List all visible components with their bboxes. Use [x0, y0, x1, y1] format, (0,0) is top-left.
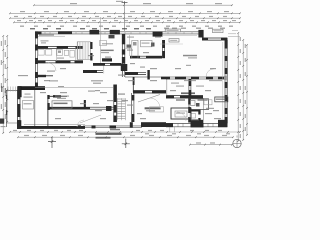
dim text	[60, 26, 64, 27]
small text b1	[40, 92, 46, 93]
dim text	[179, 20, 183, 21]
dim text	[27, 130, 31, 131]
dim text	[176, 113, 185, 114]
dim text	[5, 40, 6, 45]
dim text	[130, 11, 135, 12]
corridor wall inner	[36, 62, 84, 64]
dim text	[40, 130, 44, 131]
window detail marks top	[45, 32, 192, 34]
big room label 2	[57, 98, 66, 99]
corridor junction dark block	[102, 58, 112, 61]
stair outline	[77, 42, 90, 60]
top wall segment	[35, 31, 42, 34]
bedroom wall segment	[189, 79, 192, 86]
dim text	[164, 28, 169, 29]
dim text	[205, 26, 209, 27]
corridor wall segment	[75, 60, 84, 63]
right dim line 3	[246, 45, 248, 135]
dim text	[245, 114, 246, 118]
dim text	[169, 16, 173, 17]
dim text	[148, 130, 152, 131]
dim text	[70, 20, 74, 21]
annex west wall segment	[17, 120, 20, 129]
top wall pier 2	[110, 30, 120, 35]
dim text	[145, 20, 149, 21]
small text	[140, 67, 145, 68]
small text	[93, 103, 99, 104]
left wing lower wall outer	[48, 106, 114, 108]
interior dim text	[60, 68, 66, 69]
hall stair rails	[117, 98, 125, 120]
bathroom box	[189, 99, 209, 110]
wall C segment	[180, 95, 203, 98]
door arc left wing	[48, 63, 56, 71]
bottom wall left corner	[17, 120, 21, 129]
kitchen east wall east face	[164, 40, 166, 58]
divider segment	[206, 77, 213, 80]
label box right wing	[215, 97, 228, 102]
bedroom wall east	[190, 79, 192, 96]
kitchen wall segment	[130, 56, 140, 59]
top wall segment	[58, 31, 72, 34]
dim text	[167, 20, 171, 21]
dim line overall top	[34, 4, 232, 6]
corridor label	[47, 71, 55, 72]
table text	[54, 103, 68, 105]
left inner wall segment	[47, 103, 49, 110]
section marker cross left	[48, 137, 56, 148]
bathroom west wall segment 3	[188, 117, 191, 123]
door arc divider living	[206, 69, 214, 77]
dim text	[103, 20, 107, 21]
right wall segment	[225, 56, 228, 61]
dim text	[5, 64, 6, 69]
dim text	[114, 20, 118, 21]
dim text	[155, 16, 159, 17]
upper room divider inner	[166, 78, 227, 80]
dim text	[216, 99, 226, 100]
kitchen counter 2	[141, 40, 153, 46]
dim text	[195, 16, 199, 17]
kitchen sink	[133, 42, 137, 46]
axis line	[124, 2, 126, 32]
dim text	[240, 124, 241, 128]
dim text	[42, 135, 47, 136]
interior dim text	[175, 68, 181, 69]
dim text	[149, 135, 154, 136]
central wall segment	[122, 34, 125, 44]
right wing wall C inner	[166, 97, 203, 99]
left wall segment	[35, 72, 38, 78]
room table box	[100, 41, 107, 46]
dim text	[208, 28, 213, 29]
beam line living	[160, 43, 183, 45]
dim text	[136, 130, 140, 131]
dim text	[5, 78, 6, 83]
dim text	[190, 20, 194, 21]
dim text	[240, 134, 241, 138]
interior dim text	[95, 110, 102, 111]
dim text	[128, 16, 132, 17]
right wall inner face	[226, 40, 228, 123]
kitchen east wall segment	[162, 40, 165, 48]
dim text	[223, 16, 227, 17]
small text	[130, 63, 135, 64]
corridor partition	[103, 66, 105, 74]
dim line bottom 3 partial	[190, 144, 232, 146]
right wing vertical thin	[166, 77, 168, 96]
axis bubble bottom right	[233, 139, 241, 147]
right dim line 2	[242, 40, 244, 140]
dim text	[73, 26, 77, 27]
kitchen wall segment	[146, 56, 162, 59]
mid wall B outer	[125, 71, 146, 73]
interior dim text	[55, 118, 61, 119]
dim text	[212, 20, 216, 21]
bedroom wall west	[188, 79, 190, 96]
dim text	[34, 26, 38, 27]
annex bottom line	[6, 122, 20, 124]
dim text	[150, 11, 155, 12]
room label	[41, 40, 49, 41]
dim text	[5, 91, 6, 96]
mullion	[92, 125, 96, 128]
interior dim text	[205, 90, 211, 91]
dim text	[81, 20, 85, 21]
dim text	[196, 28, 201, 29]
dim text	[68, 16, 72, 17]
porch steps	[8, 87, 16, 92]
bedroom label B	[196, 86, 204, 87]
dim text	[140, 26, 144, 27]
dim text	[192, 26, 196, 27]
interior dim text	[44, 80, 50, 81]
dim text	[95, 16, 99, 17]
right dim line 1	[237, 33, 239, 141]
left dim line 2	[6, 36, 8, 122]
sill line living	[222, 42, 224, 120]
stair text	[127, 105, 133, 106]
terrace mullion	[78, 125, 81, 128]
annex table	[23, 101, 34, 110]
right wing wall stub	[132, 77, 134, 92]
annex table text	[24, 103, 32, 104]
dim text	[54, 130, 58, 131]
dim text	[188, 11, 193, 12]
top-right wall segment	[221, 38, 228, 41]
porch label	[18, 75, 28, 76]
door arc living	[177, 112, 186, 121]
stair treads	[78, 42, 90, 59]
dim text	[141, 16, 145, 17]
wall A segment	[76, 46, 84, 49]
title text line 1	[96, 133, 122, 135]
right wall segment	[225, 82, 228, 88]
dim text	[20, 11, 25, 12]
bedroom wall segment	[189, 90, 192, 96]
bathroom south wall poche	[189, 110, 200, 112]
dim text	[92, 20, 96, 21]
tick marks	[17, 136, 234, 138]
wall B segment	[152, 90, 166, 93]
dim text	[215, 3, 222, 4]
dim line top 2	[10, 12, 240, 14]
interior dim text	[88, 55, 94, 56]
dim text	[64, 11, 69, 12]
living small text	[186, 65, 191, 66]
left lower wall segment	[35, 75, 46, 77]
sill line right	[162, 34, 197, 36]
annex wall segment	[6, 95, 7, 99]
interior dim text	[122, 100, 128, 101]
dim text	[107, 16, 111, 17]
dim text	[222, 135, 227, 136]
hall stair treads	[117, 99, 125, 119]
corridor label 2	[49, 80, 58, 81]
dim text	[44, 11, 49, 12]
bottom wall right outer	[166, 122, 227, 124]
small text	[88, 91, 95, 92]
dim text	[20, 26, 24, 27]
mid corridor wall outer	[93, 62, 122, 64]
dim text	[204, 135, 209, 136]
dim text	[218, 130, 222, 131]
dim text	[143, 3, 151, 4]
dim text	[167, 30, 179, 31]
left room wall segment	[53, 95, 61, 97]
dim text	[156, 20, 160, 21]
dim text	[240, 86, 241, 90]
interior dim text	[100, 118, 106, 119]
hall label dark	[145, 107, 161, 109]
corridor wall segment	[56, 60, 71, 63]
bottom window inner	[83, 127, 142, 129]
central wall block	[121, 64, 128, 71]
dim text	[82, 16, 86, 17]
lower central wall segment	[113, 105, 116, 113]
interior dim text	[80, 103, 86, 104]
room text	[205, 113, 212, 114]
label box 3	[213, 29, 224, 32]
leader lines right	[228, 31, 240, 37]
right wall segment	[225, 68, 228, 74]
dim text	[1, 126, 6, 127]
dim text	[197, 133, 201, 134]
dim text	[245, 44, 246, 48]
dim text	[166, 26, 170, 27]
bottom wall inner line	[24, 124, 85, 126]
tick marks	[9, 17, 241, 19]
dim text	[181, 28, 186, 29]
left wing inner wall	[47, 97, 49, 126]
table	[52, 101, 72, 108]
room label	[101, 52, 109, 53]
annex top wall	[6, 90, 18, 92]
dim text	[43, 28, 48, 29]
interior dim text	[143, 52, 149, 53]
bedroom label 2	[209, 80, 222, 81]
right wall outer face	[224, 40, 226, 123]
left wall outer face	[35, 32, 37, 88]
bottom middle wall east	[133, 93, 135, 122]
interior dim text	[213, 110, 219, 111]
right wall segment	[225, 95, 228, 101]
dim text	[245, 86, 246, 90]
lower wall block	[106, 106, 112, 111]
tick marks	[246, 44, 248, 136]
divider segment	[218, 77, 224, 80]
kitchen wall outer	[130, 55, 162, 57]
divider segment	[191, 77, 199, 80]
left wall segment	[35, 45, 38, 51]
left margin dark text	[1, 86, 2, 92]
dim text	[30, 28, 35, 29]
small text b3	[95, 90, 100, 91]
storage box	[171, 108, 191, 119]
tick marks	[6, 35, 8, 123]
central wall west face	[121, 34, 123, 77]
left wing lower wall inner	[48, 108, 114, 110]
tick marks	[189, 144, 233, 146]
kitchen counter tall	[132, 40, 138, 58]
dim text	[1, 104, 2, 109]
dim text	[224, 11, 229, 12]
dim text	[167, 135, 172, 136]
bath partition	[55, 49, 57, 61]
door diagonal right wing	[138, 95, 160, 103]
dim text	[5, 102, 6, 107]
sill line	[38, 35, 65, 37]
dim text	[99, 26, 103, 27]
small text br	[206, 108, 214, 109]
left wing wall A outer	[36, 45, 84, 47]
dim text	[229, 26, 233, 27]
fixture tub	[70, 50, 74, 57]
right wing wall B outer	[133, 90, 166, 92]
bottom middle wall west	[131, 93, 133, 122]
door arc bottom	[150, 98, 160, 108]
living room label	[183, 55, 197, 57]
tick marks	[242, 39, 244, 141]
kitchen text	[127, 37, 134, 38]
annex west wall segment	[17, 104, 20, 117]
dim line top 3	[10, 17, 240, 19]
section marker cross middle	[122, 139, 130, 148]
bottom wall segment	[166, 123, 173, 127]
dim text	[134, 20, 138, 21]
dim text	[218, 26, 222, 27]
dim text	[196, 142, 201, 143]
divider segment	[161, 77, 170, 80]
dim text	[171, 83, 179, 84]
kitchen east wall segment 2	[162, 51, 165, 58]
inner wall segment	[198, 110, 200, 115]
dim text	[179, 26, 183, 27]
bath fixture	[191, 101, 196, 106]
left wing wall A inner	[36, 47, 84, 49]
annex west wall inner	[19, 90, 21, 126]
dim text	[38, 20, 42, 21]
door arc annex	[77, 120, 84, 127]
lower room text	[191, 119, 199, 120]
interior dim text	[128, 80, 134, 81]
dim text	[190, 130, 194, 131]
dim text	[122, 28, 127, 29]
dim text	[172, 133, 176, 134]
dim text	[245, 100, 246, 104]
fixture basin	[64, 50, 68, 55]
dim text	[80, 28, 85, 29]
left wall segment	[35, 31, 38, 38]
ramp diagonal big room	[80, 115, 101, 123]
label box 1	[165, 29, 181, 32]
mullion dark	[130, 122, 133, 127]
interior dim text	[210, 68, 216, 69]
corridor wall segment	[36, 60, 46, 63]
annex label	[24, 97, 33, 98]
lower central wall segment	[113, 116, 116, 123]
closet 1	[38, 50, 44, 56]
tick marks	[237, 32, 239, 142]
bottom wall corner	[218, 120, 228, 127]
sill text	[39, 34, 54, 35]
kitchen label	[142, 43, 150, 44]
lower room fixture	[190, 114, 196, 119]
mid wall segment	[83, 70, 97, 73]
interior dim text	[93, 83, 101, 84]
thin vertical	[169, 127, 171, 132]
dim text	[209, 16, 213, 17]
interior dim text	[140, 118, 146, 119]
dim text	[14, 16, 18, 17]
window marks bottom right	[178, 123, 213, 126]
right wall segment	[225, 108, 228, 114]
dim text	[124, 20, 128, 21]
dim text	[126, 26, 130, 27]
dim text	[118, 16, 122, 17]
room label 2	[41, 42, 46, 43]
interior dim text	[170, 90, 176, 91]
right wall window sills	[225, 49, 227, 118]
bathroom west wall segment 2	[188, 107, 191, 113]
dim text	[17, 20, 21, 21]
title text line 2	[96, 137, 111, 139]
interior dim text	[91, 80, 103, 81]
thin partition	[100, 17, 102, 64]
top wall inner face	[35, 33, 199, 35]
stove block	[109, 35, 115, 38]
kitchen text 2	[155, 37, 161, 38]
living room label 2	[188, 57, 197, 58]
top wall right outer	[202, 37, 227, 39]
big room label	[55, 96, 69, 97]
dim text	[207, 11, 212, 12]
dim text	[56, 28, 61, 29]
stub segment	[133, 77, 135, 85]
right wall segment	[225, 117, 228, 124]
dim line bottom 2	[18, 136, 233, 138]
dim text	[60, 135, 65, 136]
dim text	[146, 28, 151, 29]
dim text	[67, 130, 71, 131]
fixture WC	[57, 49, 62, 55]
left wall segment	[35, 83, 38, 88]
left wall segment	[35, 58, 38, 64]
kitchen door line	[126, 47, 132, 49]
mid wall B segment	[125, 72, 138, 75]
dim text	[145, 133, 149, 134]
left wall inner face	[37, 32, 39, 88]
